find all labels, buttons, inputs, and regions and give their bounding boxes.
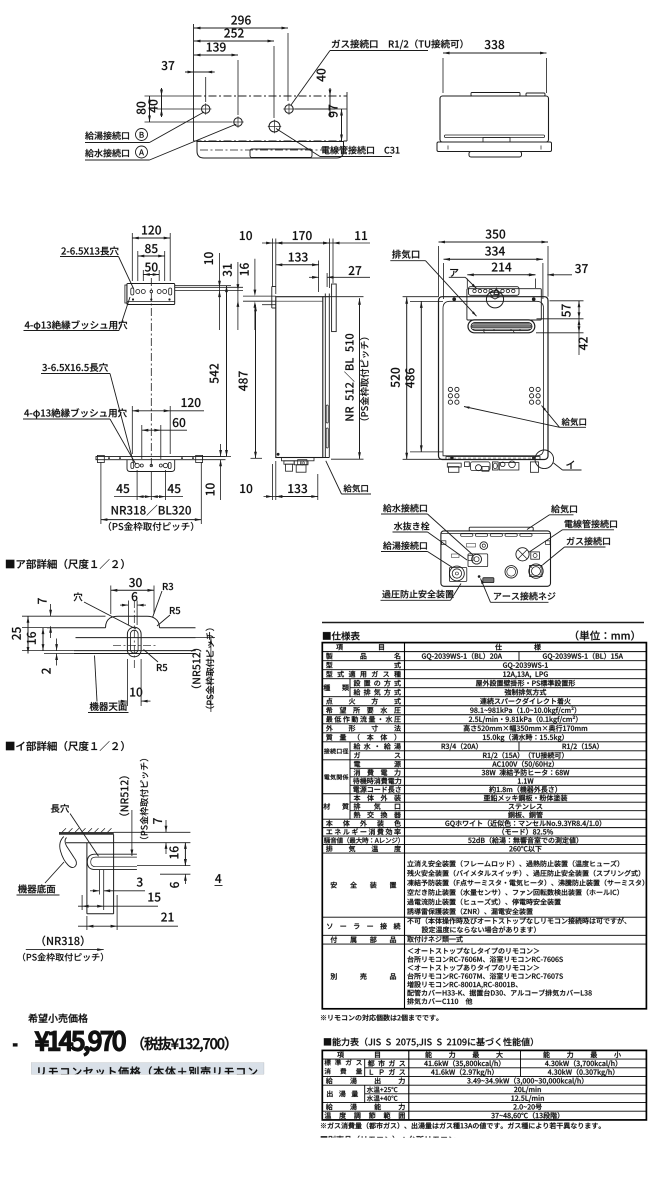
top-right view: body outline — [440, 96, 549, 142]
spec table: accessories row — [331, 936, 396, 942]
bottom view: drain valve assembly — [468, 554, 488, 567]
front view: air intake holes left cluster — [448, 387, 452, 391]
heading detail A — [6, 559, 124, 569]
bottom view: body outline — [441, 531, 551, 586]
detail I: dim 21 — [78, 925, 178, 927]
bottom view: earth screw and badge — [478, 575, 481, 578]
upper bracket: dim 85 — [138, 255, 165, 257]
front view: air intake holes right cluster — [530, 387, 534, 391]
capacity table rows — [324, 1059, 361, 1065]
bottom view: hot water outlet fitting — [449, 568, 466, 582]
detail A: R3 label — [163, 583, 173, 590]
dim 338 — [443, 52, 547, 54]
label water inlet A — [85, 149, 129, 157]
dim 10 small vertical — [219, 253, 221, 330]
hole A (water inlet) — [234, 118, 242, 126]
upper bracket body — [127, 284, 175, 305]
detail I: dim 15 — [78, 905, 158, 907]
front view: detail balloon circle (i) — [535, 450, 554, 469]
dim 31 small vertical — [237, 262, 239, 330]
bottom view: hot mark — [452, 554, 460, 558]
capacity table grid — [322, 1050, 646, 1120]
front view: top mounting bracket — [469, 287, 520, 296]
dim 16 small vertical — [254, 259, 256, 292]
detail A: dim 6 — [120, 604, 128, 606]
bottom view: conduit fitting — [516, 548, 529, 561]
detail I: clip hook — [60, 837, 77, 868]
bottom view: intake grille tab — [469, 527, 533, 531]
price block: tick mark — [13, 1043, 18, 1046]
detail I: dim 16 — [184, 842, 186, 865]
side view: dim 133 top — [276, 264, 319, 266]
detail I: bracket leg — [66, 842, 114, 844]
detail A: unit top plate — [74, 650, 196, 652]
front view: dim 42 — [578, 319, 580, 355]
label 4-phi13 bush holes lower — [24, 408, 127, 418]
capacity table footnote — [321, 1122, 601, 1129]
dim 97 vertical — [341, 109, 343, 141]
spec table grid — [322, 643, 646, 1009]
detail I: NR512 rotated labels — [119, 776, 129, 815]
label 2-6.5X13 slot — [61, 246, 118, 255]
detail A: slot hole — [127, 627, 141, 657]
detail I: note 4 underlined — [215, 874, 221, 883]
side view: bottom fittings — [276, 457, 330, 459]
detail I: nagaana label — [51, 804, 69, 813]
top view: heater body top outline — [197, 142, 344, 159]
price block: remocon set bar (clipped) — [31, 1063, 264, 1075]
hole gas connection — [285, 105, 293, 113]
price block: main price — [35, 1031, 125, 1056]
spec table group dividers — [349, 679, 351, 697]
side view: dim 487 — [255, 305, 257, 459]
front view: dim 37 — [527, 274, 535, 276]
top view: mounting plate outline (chain lines) — [194, 95, 348, 97]
label a (katakana) for exhaust detail — [450, 269, 458, 277]
lower bracket: dim 120 — [132, 410, 204, 412]
dim 296 — [194, 27, 288, 29]
detail A: R5 labels — [170, 607, 180, 614]
bottom view labels left — [383, 504, 427, 512]
bracket reference lines — [175, 286, 243, 288]
upper bracket: dim 120 — [132, 237, 170, 239]
detail I: dim 7 — [165, 820, 167, 832]
side view: bottom dims 10/133 — [264, 496, 287, 498]
bottom view labels right — [551, 505, 577, 513]
front view: exhaust grille — [468, 320, 535, 333]
detail I: slot (long hole) — [87, 854, 137, 869]
detail A: hole label — [74, 592, 83, 601]
lower bracket: dim 60 — [142, 429, 187, 431]
label 4-phi13 bush holes upper — [25, 320, 128, 330]
lower bracket: dims 45 45 — [114, 496, 183, 498]
bottom view: cold inlet fitting — [480, 542, 488, 550]
bottom view: center opening — [505, 566, 517, 578]
spec table: solar row — [327, 923, 400, 930]
price block: heading — [28, 1014, 88, 1023]
lower bracket: center tab with holes — [127, 460, 175, 472]
detail A: bracket hat profile — [106, 616, 160, 628]
detail A: left dims 7/16/25/2 — [50, 604, 52, 616]
front view: dim 350 — [439, 241, 549, 243]
spec table heading — [323, 631, 360, 640]
capacity table heading — [324, 1038, 533, 1048]
dim 40 vertical left — [161, 88, 163, 117]
side view: flange slots — [326, 405, 328, 423]
hole B (hot water outlet) — [202, 105, 210, 113]
separator rule above spec table — [322, 622, 644, 624]
upper bracket holes — [131, 288, 134, 295]
label gas connection R1/2 — [332, 39, 463, 49]
hole C31 (conduit) — [269, 121, 280, 132]
detail I: dim 3 — [90, 890, 99, 892]
spec table: optional items row — [331, 973, 396, 980]
detail A: dim 10 — [118, 700, 127, 702]
dim 80 vertical — [149, 96, 151, 122]
lower bracket: dim 10 right — [220, 444, 222, 457]
front view: dim 334 — [444, 258, 543, 260]
side view: body — [276, 297, 323, 458]
detail A: center lines — [133, 600, 135, 668]
spec table rows text — [326, 662, 401, 668]
capacity table header — [337, 1052, 380, 1058]
bottom view: gas connection fitting — [530, 565, 542, 576]
side view: exhaust side guard — [332, 284, 337, 332]
detail I: unit bottom plate with hatch — [59, 832, 113, 834]
detail I: NR318 dimension — [26, 949, 104, 951]
detail I: dim 6 — [184, 857, 186, 866]
dim 40 vertical right — [329, 88, 331, 117]
spec table: safety devices row — [331, 882, 397, 889]
front view: bottom fittings — [447, 463, 461, 467]
front view: exhaust duct — [467, 289, 541, 320]
detail I: reference lines right — [114, 831, 191, 833]
center line vertical — [150, 278, 152, 468]
detail I: kiki-teimen label — [18, 884, 55, 893]
top-right view: bottom flange — [437, 142, 552, 152]
dim 37 — [185, 71, 215, 73]
detail A: NR512 reference — [210, 638, 212, 712]
front view: dim 57 — [578, 301, 580, 319]
heading detail I — [6, 741, 124, 751]
label hot water outlet B — [85, 131, 129, 139]
side view: dim 27 — [309, 276, 319, 278]
dim 252 — [194, 40, 274, 42]
label conduit C31 — [322, 146, 400, 154]
lower bracket: bar — [96, 457, 203, 460]
side view: rear bracket — [272, 286, 276, 288]
lower bracket: dim NR318/BL320 — [101, 519, 201, 521]
front view: body outline — [439, 297, 549, 460]
spec table header row — [336, 644, 384, 650]
dim 139 — [194, 54, 238, 56]
bottom view: corner brackets — [442, 541, 446, 545]
side view: front flange lines — [324, 294, 326, 458]
front view: dim 520 — [406, 297, 408, 459]
front view: bottom mounting rail — [446, 457, 540, 460]
spec table footnote — [321, 1014, 438, 1021]
label exhaust outlet — [392, 250, 419, 259]
clipped next section heading — [321, 1136, 456, 1144]
front view: dim 486 — [420, 301, 422, 452]
side view: air intake label — [344, 484, 368, 492]
upper bracket: dim 50 — [143, 274, 159, 276]
detail A: kiki-tenmen label — [90, 702, 127, 711]
label air intake (front) — [562, 418, 586, 426]
detail A: dim 30 — [111, 589, 154, 591]
label 3-6.5X16.5 slot — [42, 363, 108, 372]
side view: dim NR512/BL510 — [359, 298, 361, 459]
dim 542 vertical — [226, 286, 228, 457]
side view: top dims 10/170/11 — [262, 242, 287, 244]
front view: dim 214 — [467, 274, 535, 276]
